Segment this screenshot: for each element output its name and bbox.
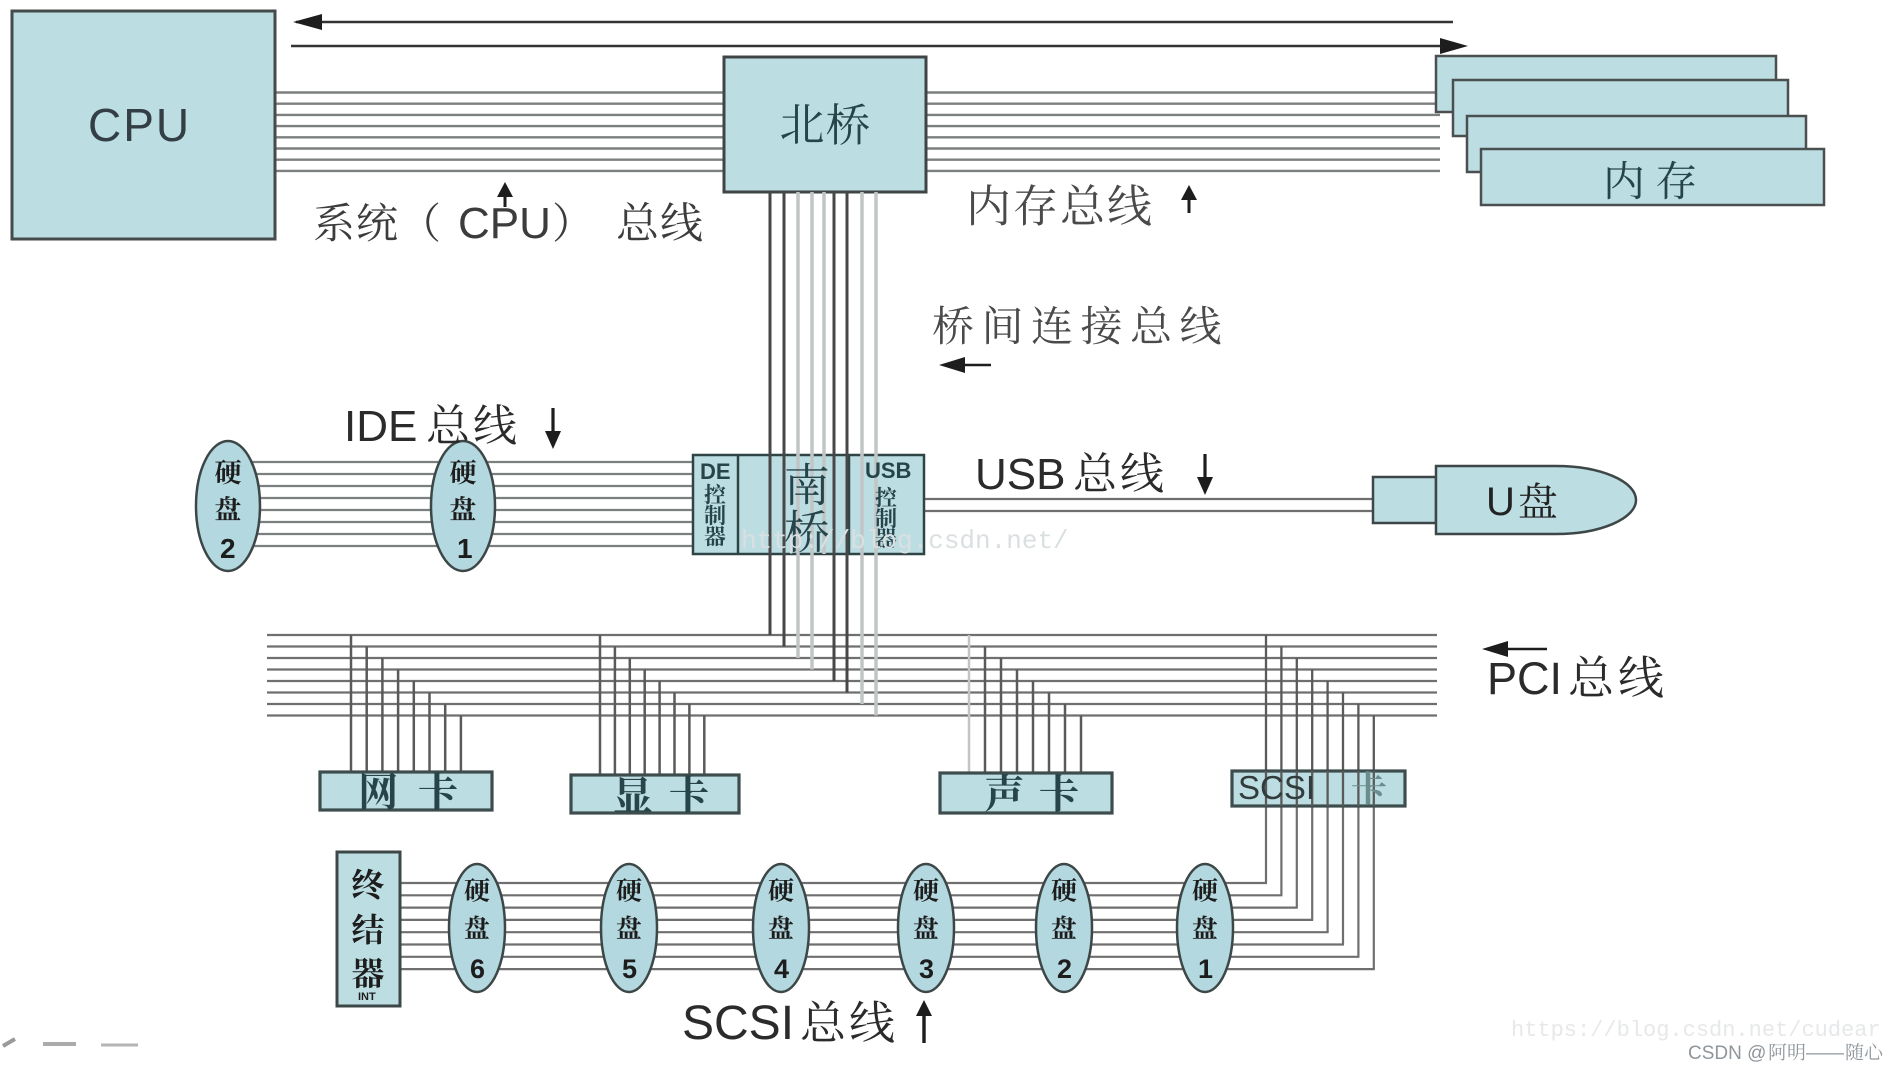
wire bundle: system (CPU) bus / memory bus, 8 lines <box>275 93 1440 171</box>
watermark: CSDN author <box>1688 1043 1882 1064</box>
wire: USB bus, 2 lines <box>924 499 1373 511</box>
SCSI card label <box>1238 769 1386 806</box>
svg-text:SCSI: SCSI <box>682 997 794 1050</box>
svg-text:——: —— <box>1806 1043 1844 1064</box>
SCSI hard disk ellipse (硬盘4) <box>753 864 809 992</box>
wire bundle: PCI bus, 8 lines <box>267 635 1437 716</box>
svg-text:CPU: CPU <box>88 99 191 151</box>
IDE hard disk 2 ellipse (硬盘2) <box>196 441 260 571</box>
label: SCSI总线 with up arrow <box>682 997 932 1050</box>
svg-text:2: 2 <box>220 533 236 564</box>
SCSI card box (SCSI卡) <box>1232 771 1405 806</box>
SCSI hard disk ellipse (硬盘6) <box>449 864 505 992</box>
svg-text:U: U <box>1486 480 1515 524</box>
SCSI hard disk ellipse (硬盘5) <box>601 864 657 992</box>
SCSI terminator box (终结器) <box>337 852 400 1006</box>
wire staircase: SCSI card to PCI bus <box>1266 635 1374 773</box>
svg-text:2: 2 <box>1057 954 1072 984</box>
label: 系统（CPU）总线 with up arrow <box>315 182 702 248</box>
svg-text:CSDN @: CSDN @ <box>1688 1043 1766 1064</box>
svg-text:1: 1 <box>1198 954 1213 984</box>
north bridge box (北桥) <box>724 57 926 192</box>
graphics card box (显卡) <box>571 775 739 813</box>
label: USB总线 with down arrow <box>975 450 1213 499</box>
svg-text:DE: DE <box>700 459 731 484</box>
svg-text:3: 3 <box>919 954 934 984</box>
wire bundle: IDE bus, 8 lines <box>240 462 693 546</box>
svg-text:4: 4 <box>774 954 789 984</box>
svg-text:6: 6 <box>470 954 485 984</box>
svg-text:1: 1 <box>457 533 473 564</box>
memory module stack (内存), 4 overlapping boxes <box>1436 56 1824 205</box>
label: PCI总线 with left arrow <box>1482 641 1663 704</box>
wire staircase: sound card to PCI bus <box>969 635 1081 775</box>
SCSI hard disk ellipse (硬盘2) <box>1036 864 1092 992</box>
wires crossing SCSI card <box>1266 771 1374 806</box>
wire bundle: north-south bridge interconnect verticals <box>770 192 876 716</box>
south bridge box (南桥) with IDE controller and USB controller cells <box>693 455 924 554</box>
SCSI hard disk ellipse (硬盘3) <box>898 864 954 992</box>
SCSI hard disk ellipse (硬盘1) <box>1177 864 1233 992</box>
svg-text:SCSI: SCSI <box>1238 769 1315 806</box>
wire staircase: NIC card to PCI bus <box>351 635 461 774</box>
sound card box (声卡) <box>940 773 1112 813</box>
svg-text:USB: USB <box>975 450 1065 499</box>
svg-text:IDE: IDE <box>344 402 417 451</box>
wire: memory-CPU lower line with right arrowhead <box>291 38 1468 54</box>
USB flash drive (U盘): connector and bullet body <box>1373 466 1636 534</box>
wire bundle: SCSI bus, 8 lines with right-side staircase to SCSI card <box>400 806 1375 969</box>
svg-text:USB: USB <box>865 458 911 483</box>
label: IDE总线 with down arrow <box>344 402 561 451</box>
svg-text:http://blog.csdn.net/: http://blog.csdn.net/ <box>741 526 1069 556</box>
svg-text:5: 5 <box>622 954 637 984</box>
svg-text:PCI: PCI <box>1487 653 1562 704</box>
label: 桥间连接总线 with left arrow <box>933 306 1220 373</box>
svg-text:https://blog.csdn.net/cudear: https://blog.csdn.net/cudear <box>1511 1018 1881 1043</box>
NIC card box (网卡) <box>320 772 492 810</box>
CPU box <box>12 11 275 239</box>
bottom-left faint marks <box>3 1039 138 1046</box>
south bridge cell texts <box>700 458 911 552</box>
wire: CPU-memory upper line with left arrowhead <box>293 14 1453 30</box>
svg-text:INT: INT <box>358 991 376 1003</box>
label: 内存总线 with up arrow <box>971 184 1197 225</box>
wire staircase: graphics card to PCI bus <box>600 635 704 777</box>
IDE hard disk 1 ellipse (硬盘1) <box>431 441 495 571</box>
